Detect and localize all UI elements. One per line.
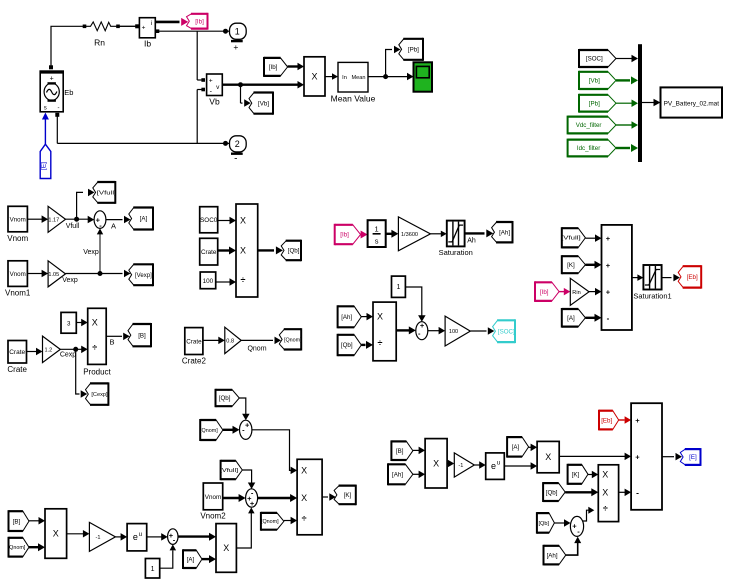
- svg-text:Rin: Rin: [572, 290, 580, 296]
- svg-text:+: +: [635, 452, 640, 461]
- product Pb = Vb*Ib: [304, 57, 325, 96]
- svg-text:[A]: [A]: [140, 216, 148, 223]
- svg-text:[Ib]: [Ib]: [269, 64, 278, 71]
- wire product to goto B: [106, 333, 130, 341]
- svg-text:[A]: [A]: [187, 556, 195, 563]
- gain -1 (E calc): [454, 453, 474, 477]
- product K = (Qnom-Qb)*(...)/Qnom: [297, 459, 322, 535]
- svg-text:+: +: [142, 24, 146, 31]
- svg-text:[Ah]: [Ah]: [341, 314, 352, 321]
- wire Idc_filter to mux (thick green): [616, 144, 638, 152]
- svg-text:Vexp: Vexp: [62, 277, 78, 284]
- wire [A] to productB (thick): [202, 555, 216, 563]
- svg-text:X: X: [223, 543, 229, 553]
- from tag [Eb] red (E calc): [599, 410, 619, 431]
- svg-text:1: 1: [235, 27, 240, 37]
- wire gain to sum with branch to goto Vfull: [66, 189, 95, 224]
- output port 1: [230, 23, 247, 41]
- svg-text:X: X: [433, 458, 439, 468]
- gain 1.05: [48, 261, 65, 287]
- from tag [K] (E calc): [568, 464, 588, 485]
- wire [Qnom] to product divide: [284, 517, 297, 524]
- constant Crate: [8, 341, 27, 364]
- svg-text:[Vfull]: [Vfull]: [97, 190, 117, 196]
- productB A*(...): [216, 524, 236, 573]
- svg-text:X: X: [377, 312, 383, 322]
- sum2 Vnom-Vfull+exp: [246, 489, 258, 508]
- constant Vnom: [8, 206, 27, 232]
- svg-text:Crate: Crate: [186, 339, 202, 346]
- sum Qnom-Qb: [240, 420, 252, 439]
- wire [SOC] to mux: [616, 55, 638, 62]
- wire sum to goto A: [106, 216, 131, 224]
- gain 1.2: [43, 336, 61, 363]
- wire Vnom2 to sum2 (thick): [223, 494, 246, 502]
- svg-text:[SOC]: [SOC]: [586, 56, 603, 63]
- svg-text:i: i: [151, 20, 152, 27]
- wire productE to big sum minus: [619, 489, 632, 497]
- svg-text:[Qb]: [Qb]: [341, 342, 353, 349]
- svg-text:+: +: [233, 42, 238, 52]
- wire [K] to productE X: [588, 471, 598, 478]
- goto tag [Qnom]: [279, 328, 302, 350]
- svg-text:u: u: [139, 532, 142, 538]
- svg-text:Crate: Crate: [9, 349, 25, 356]
- svg-text:[E]: [E]: [41, 162, 48, 170]
- svg-text:[SOC]: [SOC]: [498, 328, 515, 335]
- wire productB up into sum2 bottom: [236, 507, 254, 548]
- goto tag [K]: [334, 485, 356, 506]
- from tag [Qb] (SOC calc): [338, 334, 362, 356]
- svg-text:+: +: [50, 76, 54, 83]
- wire down from node to Vb + port: [197, 31, 205, 82]
- wire SOC0 to Qb product: [218, 217, 236, 224]
- from tag [Pb] green: [579, 94, 616, 113]
- svg-text:÷: ÷: [302, 514, 307, 524]
- resistor Rin: [83, 22, 136, 31]
- gain 0.8: [225, 327, 241, 353]
- svg-text:[K]: [K]: [572, 472, 580, 479]
- sum A = Vfull - Vexp: [94, 211, 106, 230]
- wire gain 0.8 to goto Qnom: [241, 337, 281, 345]
- svg-text:1.2: 1.2: [45, 348, 53, 354]
- svg-text:A: A: [111, 222, 116, 231]
- controlled voltage source Eb: [40, 71, 63, 112]
- svg-text:100: 100: [449, 329, 458, 335]
- from tag Vdc_filter green: [568, 116, 616, 135]
- from tag [K] (Eb calc): [562, 255, 586, 274]
- goto tag [SOC] cyan: [493, 319, 515, 343]
- goto tag [Vb]: [249, 92, 273, 115]
- svg-text:1.05: 1.05: [48, 272, 59, 278]
- wire sum3 to productB (thick): [178, 533, 216, 541]
- constant Crate (Qb): [200, 238, 218, 265]
- from tag [Vfull] (Eb calc): [561, 227, 585, 248]
- svg-text:e: e: [133, 532, 138, 542]
- blue from tag [E] vertical: [40, 144, 51, 178]
- from tag [Qnom] (K calc): [200, 419, 223, 441]
- svg-text:X: X: [92, 318, 98, 328]
- wire [Qb] down into sum top: [239, 398, 249, 420]
- from tag [Qb] (E calc denom): [537, 512, 555, 534]
- wire integrator to gain 1/3600 (thick): [386, 230, 399, 238]
- svg-text:[Qnom]: [Qnom]: [284, 337, 302, 343]
- Saturation1 block: [643, 265, 661, 290]
- constant 1 (SOC calc): [392, 276, 406, 297]
- svg-text:-: -: [636, 487, 639, 497]
- svg-text:+: +: [606, 261, 611, 270]
- svg-text:Rn: Rn: [94, 38, 105, 48]
- goto tag [B]: [128, 323, 151, 347]
- voltage measurement Vb: [207, 74, 223, 96]
- svg-text:[B]: [B]: [396, 448, 404, 455]
- svg-text:[A]: [A]: [512, 444, 520, 451]
- svg-text:+: +: [606, 288, 611, 297]
- productA B*Qnom: [45, 509, 67, 559]
- from tag [Ah] (SOC calc): [338, 305, 362, 328]
- svg-text:u: u: [497, 461, 500, 467]
- sum4 Qb-Ah: [570, 516, 583, 536]
- goto tag [Pb]: [399, 38, 423, 61]
- svg-text:-: -: [58, 105, 60, 111]
- gain 1.17: [48, 206, 65, 232]
- svg-text:Vb: Vb: [209, 97, 220, 107]
- constant 100: [200, 272, 216, 289]
- svg-text:[Qnom]: [Qnom]: [200, 428, 218, 434]
- wire Mean Value to scope with branch to goto Pb: [368, 46, 414, 81]
- wire mux to To File block: [642, 99, 661, 106]
- goto tag [Qb]: [281, 240, 301, 262]
- svg-text:+: +: [245, 421, 250, 430]
- sum SOC = 1 - Ah/Qb: [416, 321, 428, 340]
- wire [Ah] up into sum4 bottom: [566, 537, 581, 556]
- svg-text:1: 1: [151, 566, 155, 573]
- wire constant 1 down into sum top: [405, 287, 425, 322]
- math function e^u (exp chain): [127, 524, 147, 551]
- svg-text:X: X: [311, 71, 317, 81]
- wire gain 1.2 to product divide input, branch to goto Cexp: [60, 346, 87, 398]
- svg-text:PV_Battery_02.mat: PV_Battery_02.mat: [664, 100, 720, 107]
- svg-text:1/3600: 1/3600: [401, 232, 418, 238]
- wire [Ah] to product: [361, 313, 373, 321]
- wire Ib i-output to goto Ib (thick): [155, 18, 188, 26]
- from tag [Vfull] (K calc): [220, 460, 242, 480]
- svg-text:[Ib]: [Ib]: [195, 18, 204, 25]
- wire Vnom1 to gain 1.05: [27, 270, 48, 277]
- svg-text:SOC0: SOC0: [200, 217, 218, 224]
- svg-text:+: +: [250, 499, 255, 508]
- gain 100 (SOC): [445, 316, 470, 346]
- svg-text:X: X: [240, 216, 246, 226]
- wire [A] to productD top input: [529, 444, 538, 452]
- svg-text:-1: -1: [96, 535, 101, 541]
- wire Vdc_filter to mux green: [616, 121, 638, 129]
- from tag [A] (E calc): [507, 436, 528, 458]
- gain -1 (exp chain): [89, 522, 115, 551]
- svg-text:Eb: Eb: [64, 88, 73, 97]
- wire Vb output to product (thick) with branch to goto Vb: [222, 81, 304, 107]
- wire gain -1 to e^u: [115, 533, 127, 541]
- wire product to Mean Value: [325, 73, 338, 80]
- from tag [A] (exp chain): [183, 549, 202, 569]
- wire [Qnom] to productA (thick): [29, 543, 45, 551]
- wire from source + terminal up and to resistor: [51, 26, 84, 65]
- from tag [A] (Eb calc): [562, 308, 586, 328]
- wire [A] to sum block (thick): [585, 314, 601, 322]
- svg-text:Crate2: Crate2: [182, 357, 207, 366]
- from tag [B] (exp chain): [9, 510, 30, 532]
- wire sum4 up to productE divide: [583, 507, 595, 521]
- wire gain 1.05 to goto Vexp: [66, 270, 131, 277]
- product B = 3*Cexp: [88, 308, 107, 364]
- from tag [Vb] green: [579, 71, 616, 90]
- wire Crate to gain 1.2: [27, 348, 43, 355]
- constant Vnom1: [8, 261, 27, 287]
- svg-text:[E]: [E]: [689, 454, 697, 461]
- svg-text:Vfull: Vfull: [66, 223, 80, 230]
- math function e^u (E calc): [486, 453, 505, 480]
- svg-text:[K]: [K]: [344, 492, 352, 499]
- svg-text:-: -: [607, 314, 610, 323]
- svg-text:Vnom: Vnom: [7, 234, 28, 243]
- productE K*Qb/(Qb-Ah): [598, 465, 618, 522]
- wire [Ib] to integrator (magenta arrow): [361, 231, 368, 239]
- wire resistor to Ib with arrow: [118, 24, 139, 28]
- svg-text:-: -: [234, 154, 237, 165]
- wire productD to big sum middle +: [559, 453, 631, 461]
- wire [Qb] to sum4: [554, 519, 570, 527]
- wire sum to gain 100: [428, 327, 445, 335]
- wire [Vfull] down into sum2 top: [242, 470, 255, 489]
- svg-text:[K]: [K]: [567, 262, 575, 269]
- wire Qb product to goto Qb (thick): [258, 246, 283, 254]
- svg-text:Vexp: Vexp: [83, 249, 99, 256]
- Saturation block: [447, 221, 465, 247]
- svg-text:[Eb]: [Eb]: [601, 417, 612, 424]
- wire Saturation1 to goto Eb: [662, 274, 680, 282]
- sum3 exp - 1: [168, 529, 178, 545]
- wire [Qb] to productE X (thick): [565, 488, 598, 496]
- svg-text:s: s: [375, 237, 379, 246]
- constant Crate2: [185, 328, 203, 355]
- output port 2: [230, 136, 247, 154]
- svg-text:÷: ÷: [241, 275, 246, 285]
- svg-text:X: X: [301, 493, 307, 503]
- svg-text:[A]: [A]: [567, 315, 575, 322]
- svg-text:X: X: [602, 487, 608, 497]
- wire gain -1 to e^u (E calc): [474, 461, 485, 469]
- svg-text:Crate: Crate: [201, 249, 217, 256]
- svg-text:[Vb]: [Vb]: [258, 100, 269, 107]
- from tag [Qnom] (exp chain): [8, 537, 29, 558]
- svg-text:Vnom2: Vnom2: [200, 512, 226, 521]
- svg-text:[Ib]: [Ib]: [340, 232, 349, 239]
- svg-text:s: s: [44, 105, 47, 111]
- svg-text:[Qb]: [Qb]: [288, 248, 300, 255]
- svg-text:Product: Product: [83, 368, 111, 377]
- svg-text:Crate: Crate: [7, 365, 27, 374]
- svg-text:B: B: [109, 338, 114, 347]
- wire productA to gain -1: [67, 530, 90, 538]
- svg-text:[Cexp]: [Cexp]: [91, 392, 108, 398]
- wire sum right and down to product X input: [252, 430, 297, 474]
- from tag [Qb] (E calc X): [543, 482, 565, 502]
- svg-text:+: +: [635, 416, 640, 425]
- from tag [SOC] (to file mux): [579, 49, 616, 68]
- svg-text:X: X: [301, 465, 307, 475]
- svg-text:[Eb]: [Eb]: [687, 274, 698, 281]
- svg-text:÷: ÷: [603, 503, 608, 513]
- svg-text:Saturation: Saturation: [439, 248, 473, 257]
- wire Vnom to gain 1.17: [27, 215, 48, 223]
- wire [Qb] to product divide (thick): [361, 341, 373, 349]
- svg-text:[Ah]: [Ah]: [392, 472, 403, 479]
- svg-text:Ib: Ib: [144, 39, 151, 49]
- svg-text:[Ah]: [Ah]: [499, 229, 510, 236]
- from tag [Ib] magenta (Eb calc): [535, 281, 559, 302]
- integrator 1/s: [368, 220, 386, 247]
- wire [B] to productC: [413, 447, 425, 455]
- svg-text:Vdc_filter: Vdc_filter: [576, 122, 602, 129]
- scope block (green): [414, 62, 433, 91]
- big sum E = Eb + A*exp - K*Qb/(Qb-Ah): [631, 403, 662, 510]
- wire [Qnom] to sum (thick): [223, 426, 240, 434]
- svg-text:÷: ÷: [92, 343, 97, 353]
- wire [Ah] to productC: [413, 471, 425, 479]
- product Qb = SOC0*Crate/100: [236, 204, 258, 297]
- from tag [Ib] feeding power product: [264, 57, 288, 77]
- svg-text:Vnom1: Vnom1: [5, 289, 31, 298]
- from tag [Ib] magenta (Ah chain): [335, 224, 361, 245]
- Mean Value block: [338, 62, 368, 92]
- svg-text:1: 1: [375, 225, 379, 234]
- svg-text:Cexp: Cexp: [60, 352, 76, 359]
- vertical wire Vexp into sum bottom: [97, 228, 103, 273]
- svg-text:0.8: 0.8: [226, 339, 234, 345]
- svg-text:100: 100: [203, 278, 214, 285]
- goto tag [Eb] red: [678, 265, 701, 288]
- svg-text:[Vb]: [Vb]: [589, 78, 600, 85]
- wire Crate to Qb product (thick): [218, 247, 236, 255]
- wire 3 to product X input: [76, 319, 87, 326]
- svg-text:Saturation1: Saturation1: [633, 292, 671, 301]
- wire big sum to goto E: [662, 453, 682, 461]
- wire Rin to sum block: [589, 288, 602, 296]
- productC B*Ah: [425, 439, 447, 488]
- svg-text:X: X: [545, 452, 551, 462]
- svg-text:[Vfull]: [Vfull]: [561, 236, 581, 242]
- wire e^u to productD lower input: [504, 462, 537, 470]
- product Ah/Qb: [373, 302, 396, 361]
- goto tag [Cexp]: [86, 382, 109, 405]
- wire sum to Saturation1: [632, 274, 644, 281]
- svg-text:[Pb]: [Pb]: [589, 100, 600, 107]
- constant SOC0: [200, 207, 218, 233]
- wire [Pb] to mux green: [616, 100, 638, 108]
- wire [Eb] to big sum (red): [619, 416, 631, 424]
- blue wire from [E] tag to source bottom: [42, 113, 49, 145]
- svg-text:[Vfull]: [Vfull]: [220, 468, 239, 474]
- svg-text:Idc_filter: Idc_filter: [577, 145, 600, 152]
- wire product to sum (thick): [396, 326, 416, 334]
- svg-text:[Pb]: [Pb]: [408, 47, 419, 54]
- sum block Eb: [602, 225, 632, 330]
- gain Rin: [570, 278, 589, 305]
- svg-text:In: In: [342, 75, 347, 81]
- svg-text:-1: -1: [458, 463, 463, 469]
- svg-text:[B]: [B]: [138, 332, 146, 339]
- svg-text:e: e: [491, 461, 496, 471]
- svg-text:[Qb]: [Qb]: [219, 395, 231, 402]
- svg-text:X: X: [53, 529, 59, 539]
- goto tag [Ah]: [492, 221, 513, 243]
- svg-text:Ah: Ah: [467, 238, 476, 245]
- svg-text:1.17: 1.17: [48, 218, 59, 224]
- wire Saturation to goto Ah (thick): [465, 229, 494, 237]
- wire product to goto K: [322, 493, 336, 501]
- wire [K] to sum block (thick): [585, 261, 601, 269]
- wire Vb - port down to bottom rail: [197, 88, 205, 144]
- svg-text:X: X: [602, 470, 608, 480]
- goto tag [A]: [129, 207, 153, 231]
- svg-text:[Qnom]: [Qnom]: [8, 545, 26, 551]
- wire [Vb] to mux (thick green): [616, 76, 638, 84]
- from tag [Qb] (K calc): [216, 389, 240, 407]
- goto tag [Vfull]: [93, 181, 117, 204]
- svg-text:X: X: [240, 246, 246, 256]
- wire e^u to sum3: [147, 533, 168, 541]
- svg-text:[Qnom]: [Qnom]: [261, 519, 279, 525]
- wire gain to Saturation: [430, 231, 446, 238]
- svg-text:+: +: [606, 234, 611, 243]
- svg-text:Qnom: Qnom: [247, 346, 266, 353]
- current measurement Ib: [139, 18, 155, 38]
- svg-text:÷: ÷: [378, 338, 383, 348]
- svg-text:[Vexp]: [Vexp]: [135, 273, 152, 279]
- svg-text:3: 3: [67, 320, 71, 327]
- wire [B] to productA: [29, 517, 45, 525]
- gain 1/3600: [398, 217, 430, 251]
- svg-text:2: 2: [235, 139, 240, 149]
- constant Vnom2: [203, 483, 222, 510]
- svg-text:[Ib]: [Ib]: [540, 289, 549, 296]
- svg-text:Vnom: Vnom: [10, 271, 26, 278]
- mux bar: [638, 44, 642, 162]
- from tag [Ah] (E calc denom): [544, 545, 566, 566]
- svg-text:[Qb]: [Qb]: [538, 521, 549, 527]
- wire productC to gain -1: [447, 460, 454, 467]
- wire 100 to Qb product divide: [216, 278, 236, 286]
- svg-text:[Qb]: [Qb]: [546, 489, 558, 496]
- wire Ib passthrough to port 1: [155, 29, 229, 34]
- from tag Idc_filter green: [568, 139, 616, 158]
- wire constant 1 to sum3 bottom: [160, 544, 176, 568]
- wire Crate2 to gain 0.8: [203, 337, 225, 345]
- constant 3: [61, 312, 76, 333]
- goto tag [Vexp]: [129, 263, 153, 286]
- svg-text:Vnom: Vnom: [10, 217, 26, 224]
- svg-text:Vnom: Vnom: [205, 494, 221, 501]
- svg-text:+: +: [209, 78, 213, 85]
- To File block PV_Battery_02.mat: [661, 87, 723, 117]
- wire [Vfull] to sum block: [585, 234, 601, 242]
- goto tag [E] blue: [680, 448, 700, 466]
- svg-text:1: 1: [396, 284, 400, 291]
- goto tag [Ib] magenta: [187, 13, 208, 30]
- svg-text:+: +: [420, 321, 425, 330]
- wire gain 100 to goto SOC: [470, 327, 494, 335]
- productD A*exp: [537, 441, 559, 472]
